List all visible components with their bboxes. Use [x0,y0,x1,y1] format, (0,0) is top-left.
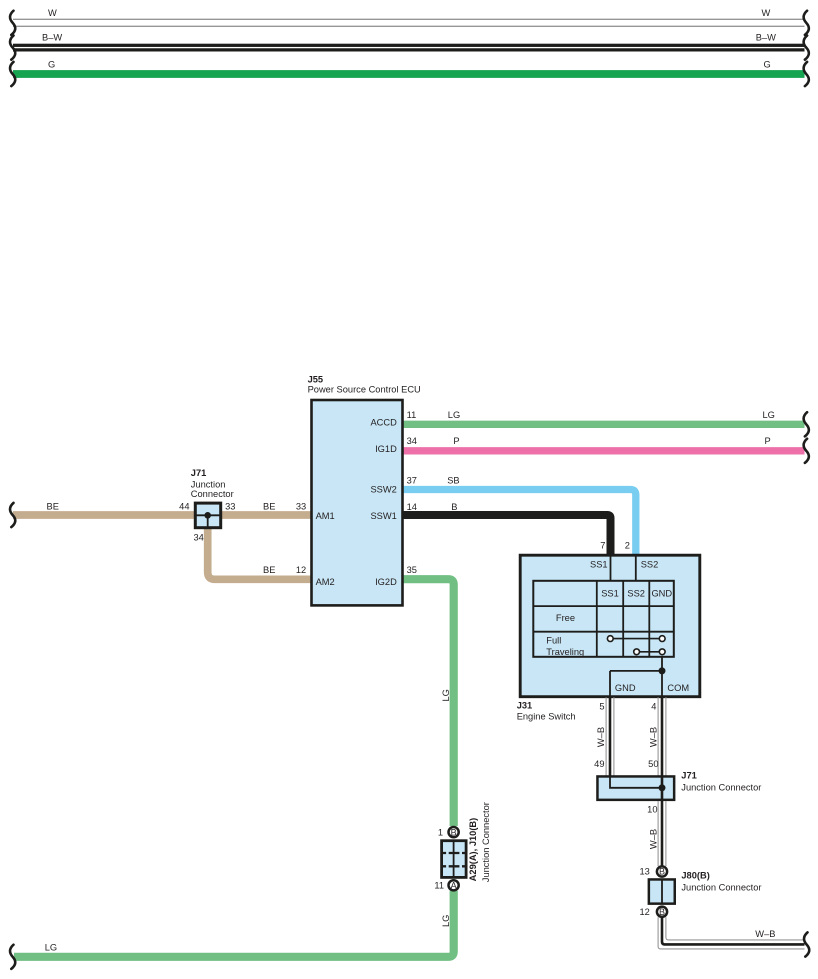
svg-text:LG: LG [763,410,775,420]
svg-text:BE: BE [263,565,275,575]
svg-text:LG: LG [441,689,451,701]
svg-text:GND: GND [651,588,672,598]
svg-text:SSW2: SSW2 [370,485,396,495]
svg-text:A: A [451,881,457,891]
svg-text:Junction Connector: Junction Connector [481,802,491,882]
svg-text:7: 7 [600,541,605,551]
svg-text:35: 35 [407,565,417,575]
svg-text:W–B: W–B [755,929,775,939]
svg-text:37: 37 [407,475,417,485]
svg-text:14: 14 [407,502,417,512]
svg-text:11: 11 [407,410,417,420]
svg-text:LG: LG [448,410,460,420]
svg-text:COM: COM [667,683,689,693]
svg-text:SSW1: SSW1 [370,511,396,521]
svg-text:J31: J31 [517,700,533,710]
svg-text:BE: BE [263,502,275,512]
svg-text:5: 5 [599,701,604,711]
svg-text:AM1: AM1 [316,511,335,521]
svg-text:SS2: SS2 [641,560,659,570]
svg-text:LG: LG [441,915,451,927]
svg-text:ACCD: ACCD [370,417,397,427]
svg-text:G: G [48,59,55,69]
svg-text:Junction Connector: Junction Connector [681,783,761,793]
svg-text:Junction Connector: Junction Connector [681,883,761,893]
svg-text:B: B [659,907,665,917]
svg-text:33: 33 [296,502,306,512]
svg-text:LG: LG [45,943,57,953]
svg-text:12: 12 [639,907,649,917]
svg-text:Power Source Control ECU: Power Source Control ECU [308,385,421,395]
svg-text:J55: J55 [308,375,324,385]
svg-text:AM2: AM2 [316,577,335,587]
svg-text:10: 10 [647,805,657,815]
svg-text:P: P [453,436,459,446]
svg-text:B: B [451,827,457,837]
svg-text:W: W [762,8,771,18]
svg-text:Junction: Junction [191,479,226,489]
svg-text:34: 34 [193,533,203,543]
svg-text:GND: GND [615,683,636,693]
svg-text:SS2: SS2 [627,588,645,598]
svg-text:IG1D: IG1D [375,444,397,454]
svg-text:11: 11 [434,881,444,891]
svg-text:W–B: W–B [596,727,606,747]
svg-text:B–W: B–W [42,33,62,43]
svg-text:12: 12 [296,565,306,575]
svg-text:Engine Switch: Engine Switch [517,712,576,722]
svg-text:Traveling: Traveling [546,647,584,657]
svg-text:BE: BE [47,502,59,512]
svg-text:2: 2 [625,541,630,551]
svg-text:A29(A), J10(B): A29(A), J10(B) [468,818,478,882]
svg-text:SS1: SS1 [590,560,608,570]
svg-text:J80(B): J80(B) [681,870,709,880]
svg-text:P: P [765,436,771,446]
svg-text:1: 1 [438,828,443,838]
svg-text:B–W: B–W [756,33,776,43]
svg-text:Connector: Connector [191,489,234,499]
svg-text:W–B: W–B [649,829,659,849]
svg-text:33: 33 [225,502,235,512]
svg-text:J71: J71 [191,468,207,478]
svg-text:SS1: SS1 [601,588,619,598]
svg-text:13: 13 [639,866,649,876]
svg-text:4: 4 [651,701,656,711]
svg-text:SB: SB [447,475,459,485]
svg-text:G: G [764,59,771,69]
svg-text:J71: J71 [681,771,697,781]
svg-text:34: 34 [407,436,417,446]
svg-text:W: W [48,8,57,18]
svg-text:49: 49 [594,759,604,769]
svg-text:Full: Full [546,636,561,646]
svg-text:B: B [451,502,457,512]
svg-text:44: 44 [179,502,189,512]
svg-text:50: 50 [648,759,658,769]
svg-text:IG2D: IG2D [375,577,397,587]
svg-text:W–B: W–B [649,727,659,747]
svg-text:B: B [659,867,665,877]
svg-text:Free: Free [556,613,575,623]
